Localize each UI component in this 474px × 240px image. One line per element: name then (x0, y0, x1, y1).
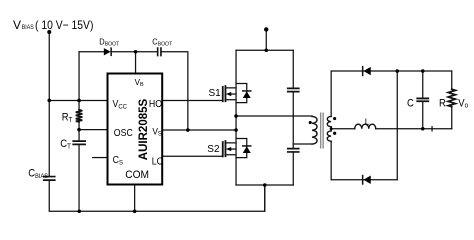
svg-text:VCC: VCC (113, 97, 128, 110)
svg-text:S1: S1 (209, 88, 222, 99)
svg-text:S2: S2 (207, 144, 220, 155)
svg-text:LO: LO (152, 155, 164, 167)
svg-text:CBIAS: CBIAS (28, 168, 48, 180)
svg-text:CS: CS (113, 153, 123, 166)
svg-text:HO: HO (149, 97, 162, 109)
svg-text:BIAS: BIAS (22, 24, 35, 31)
svg-text:CT: CT (60, 139, 71, 151)
svg-text:R: R (439, 98, 446, 110)
svg-text:OSC: OSC (114, 126, 133, 138)
svg-text:Vo: Vo (458, 98, 468, 110)
svg-text:VS: VS (152, 126, 161, 138)
svg-text:L: L (365, 116, 370, 126)
svg-text:( 10 V− 15V): ( 10 V− 15V) (35, 18, 93, 32)
svg-text:AUIR2085S: AUIR2085S (138, 98, 150, 160)
svg-text:VB: VB (135, 77, 144, 88)
svg-text:COM: COM (125, 169, 149, 182)
svg-text:RT: RT (62, 112, 73, 124)
svg-text:DBOOT: DBOOT (99, 37, 119, 48)
svg-text:CBOOT: CBOOT (152, 37, 172, 48)
svg-text:C: C (407, 98, 414, 110)
svg-text:V: V (13, 18, 21, 32)
